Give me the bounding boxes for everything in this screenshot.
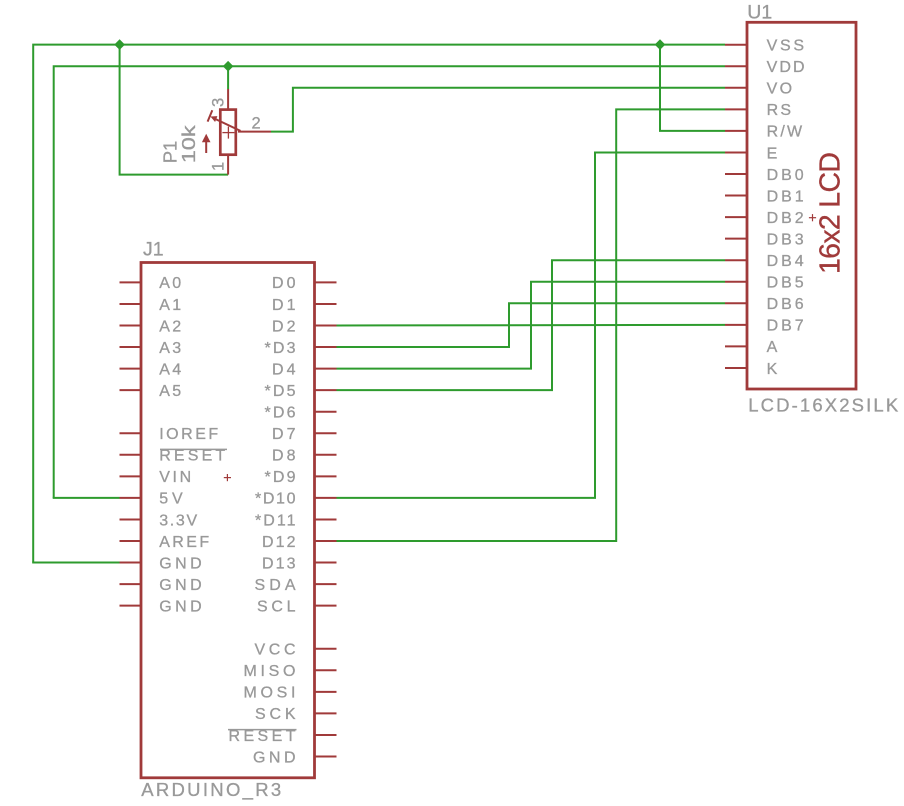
P1 pin 2 wiper stub	[238, 131, 271, 133]
P1 reference designator label	[159, 141, 180, 164]
U1 reference designator label	[747, 1, 772, 23]
svg-text:SDA: SDA	[255, 577, 296, 594]
svg-text:1: 1	[209, 162, 227, 171]
J1 right pin D13	[262, 555, 337, 572]
IC U1 16x2 LCD outline	[747, 22, 856, 389]
svg-text:DB4: DB4	[767, 253, 804, 270]
J1 left pin GND	[120, 598, 202, 615]
U1 pin DB3	[725, 231, 804, 248]
wire DB4 net: J1 D5 to LCD DB4	[337, 260, 726, 390]
U1 pin A	[725, 339, 778, 356]
wire GND net: junction drop to LCD R/W	[660, 45, 725, 131]
J1 left pin 3.3V	[120, 512, 198, 529]
J1 left pin A0	[120, 275, 182, 292]
svg-text:SCL: SCL	[257, 598, 296, 615]
J1 RESET right active-low overbar	[228, 729, 297, 731]
U1 pin E	[725, 145, 777, 162]
svg-text:DB1: DB1	[767, 188, 804, 205]
J1 left pin A4	[120, 361, 182, 378]
U1 pin VSS	[725, 38, 804, 55]
wire DB6 net: J1 D3 to LCD DB6	[337, 303, 726, 347]
svg-text:*D3: *D3	[265, 340, 296, 357]
U1 pin DB0	[725, 167, 804, 184]
J1 reference designator label	[143, 238, 164, 260]
potentiometer P1 body	[220, 110, 236, 155]
J1 right pin GND	[253, 749, 337, 766]
U1 pin VO	[725, 81, 792, 98]
J1 right pin D8	[272, 448, 337, 465]
J1 left pin A5	[120, 383, 182, 400]
svg-text:DB3: DB3	[767, 231, 804, 248]
P1 pin 3 stub	[227, 89, 229, 110]
U1 pin DB4	[725, 253, 804, 270]
svg-text:GND: GND	[159, 598, 202, 615]
svg-text:VSS: VSS	[767, 38, 805, 55]
svg-text:J1: J1	[143, 238, 164, 260]
P1 pin number 3	[209, 98, 227, 107]
svg-text:ARDUINO_R3: ARDUINO_R3	[141, 779, 281, 801]
J1 value label ARDUINO_R3	[141, 779, 281, 801]
J1 left pin AREF	[120, 534, 210, 551]
U1 pin DB5	[725, 275, 804, 292]
U1 pin R/W	[725, 124, 803, 141]
svg-text:DB6: DB6	[767, 296, 804, 313]
svg-text:DB7: DB7	[767, 318, 804, 335]
wire 5V net: junction drop to P1 pin 3	[227, 66, 229, 89]
J1 left pin A2	[120, 318, 182, 335]
P1 value label 10k	[178, 124, 199, 163]
U1 pin DB6	[725, 296, 804, 313]
svg-text:R/W: R/W	[767, 124, 803, 141]
P1 wiper arrow diagonal	[208, 110, 241, 131]
wire 5V net: left vertical + second rail to LCD VDD	[54, 66, 725, 498]
svg-text:16x2 LCD: 16x2 LCD	[814, 152, 846, 274]
J1 right pin *D9	[265, 469, 337, 486]
wire DB7 net: J1 D2 to LCD DB7	[337, 324, 726, 327]
svg-text:VO: VO	[767, 81, 793, 98]
U1 value label LCD-16X2SILK	[748, 395, 899, 416]
J1 left pin IOREF	[120, 426, 219, 443]
U1 pin DB2	[725, 210, 804, 227]
J1 right pin SDA	[255, 577, 337, 594]
svg-text:DB0: DB0	[767, 167, 804, 184]
svg-text:GND: GND	[159, 577, 202, 594]
J1 right pin D4	[272, 361, 337, 378]
svg-text:IOREF: IOREF	[159, 426, 218, 443]
svg-text:D12: D12	[262, 534, 296, 551]
J1 right pin *D5	[265, 383, 337, 400]
J1 right pin MISO	[244, 663, 337, 680]
svg-text:3.3V: 3.3V	[159, 512, 197, 529]
svg-text:2: 2	[252, 114, 261, 132]
U1 pin DB1	[725, 188, 804, 205]
svg-text:DB2: DB2	[767, 210, 804, 227]
J1 right pin MOSI	[244, 685, 337, 702]
junction GND rail / LCD R/W branch	[655, 40, 664, 49]
junction GND rail / P1 pin 1 branch	[115, 40, 124, 49]
J1 left pin A1	[120, 297, 182, 314]
U1 pin RS	[725, 102, 791, 119]
J1 left pin VIN	[120, 469, 192, 486]
J1 right pin D0	[272, 275, 337, 292]
svg-text:D13: D13	[262, 555, 296, 572]
U1 pin K	[725, 361, 778, 378]
wire GND net: junction drop to P1 pin 1	[120, 45, 229, 175]
svg-text:VCC: VCC	[255, 642, 296, 659]
J1 right pin *D10	[255, 491, 337, 508]
svg-text:E: E	[767, 145, 778, 162]
svg-text:U1: U1	[747, 1, 772, 23]
J1 right pin VCC	[255, 642, 337, 659]
svg-text:*D9: *D9	[265, 469, 296, 486]
svg-text:DB5: DB5	[767, 275, 804, 292]
J1 right pin SCK	[255, 706, 337, 723]
U1 16x2 LCD rotated title	[814, 152, 846, 274]
P1 pin number 1	[209, 162, 227, 171]
J1 right pin D7	[272, 426, 337, 443]
J1 right pin RESET	[229, 728, 337, 745]
U1 pin DB7	[725, 318, 804, 335]
J1 left pin GND	[120, 555, 202, 572]
svg-text:A: A	[767, 339, 778, 356]
svg-text:GND: GND	[253, 749, 296, 766]
wire E net: J1 D10 to LCD E	[337, 152, 726, 497]
U1 pin VDD	[725, 59, 805, 76]
wire VO net: P1 pin 2 to LCD VO	[271, 88, 725, 132]
svg-text:K: K	[767, 361, 778, 378]
P1 pin 1 stub	[227, 155, 229, 175]
svg-text:3: 3	[209, 98, 227, 107]
J1 right pin D12	[262, 534, 337, 551]
svg-text:MISO: MISO	[244, 663, 296, 680]
P1 origin cross	[222, 127, 234, 139]
svg-text:GND: GND	[159, 555, 202, 572]
svg-text:VIN: VIN	[159, 469, 191, 486]
J1 right pin D2	[272, 318, 337, 335]
svg-text:10k: 10k	[178, 124, 199, 163]
J1 right pin SCL	[257, 598, 337, 615]
svg-text:*D6: *D6	[265, 405, 296, 422]
J1 origin cross	[224, 474, 231, 481]
svg-text:VDD: VDD	[767, 59, 805, 76]
J1 RESET left active-low overbar	[160, 448, 227, 450]
svg-text:5V: 5V	[159, 491, 183, 508]
svg-text:*D10: *D10	[255, 491, 296, 508]
junction 5V rail / P1 pin 3 branch	[224, 62, 233, 71]
J1 right pin D1	[272, 297, 337, 314]
J1 left pin RESET	[120, 448, 226, 465]
J1 left pin A3	[120, 340, 182, 357]
connector J1 ARDUINO_R3 outline	[141, 263, 315, 778]
svg-text:*D5: *D5	[265, 383, 296, 400]
J1 left pin GND	[120, 577, 202, 594]
J1 right pin *D6	[265, 405, 337, 422]
svg-text:SCK: SCK	[255, 706, 296, 723]
wire GND net: left vertical + top rail to LCD VSS	[33, 45, 725, 563]
wire DB5 net: J1 D4 to LCD DB5	[337, 282, 726, 369]
J1 right pin *D11	[255, 512, 337, 529]
wire GND net: stub to J1 GND pin	[32, 562, 119, 564]
wire RS net: J1 D12 to LCD RS	[337, 109, 726, 541]
P1 adjustment arrow	[202, 134, 211, 153]
J1 right pin *D3	[265, 340, 337, 357]
U1 origin cross	[809, 214, 816, 221]
wire 5V net: stub to J1 5V pin	[53, 497, 120, 499]
P1 pin number 2	[252, 114, 261, 132]
J1 left pin 5V	[120, 491, 184, 508]
